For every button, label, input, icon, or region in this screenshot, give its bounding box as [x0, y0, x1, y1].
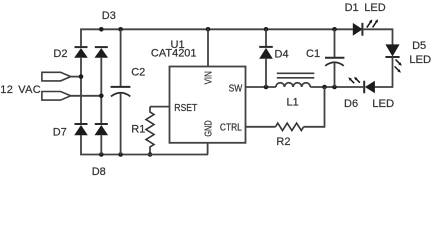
svg-text:SW: SW: [229, 84, 243, 95]
wire SW pin to L1: [246, 86, 276, 88]
svg-text:LED: LED: [372, 98, 394, 110]
svg-text:LED: LED: [409, 54, 431, 66]
diode D4: [259, 29, 273, 87]
svg-text:C1: C1: [306, 48, 320, 60]
svg-text:CAT4201: CAT4201: [151, 48, 197, 60]
svg-text:D6: D6: [344, 98, 358, 110]
svg-text:C2: C2: [131, 66, 145, 78]
capacitor C2: [111, 29, 131, 154]
svg-text:D2: D2: [53, 48, 67, 60]
node R1/bottom-rail junction: [148, 152, 153, 157]
node C1/node-line junction: [332, 85, 337, 90]
capacitor C1: [325, 29, 344, 87]
pin VIN wire: [207, 29, 209, 66]
wire SW node line (L1 right end to D6 cathode): [310, 86, 364, 88]
IC U1 box: [170, 67, 246, 143]
terminal 2 (VAC bottom): [42, 92, 101, 101]
svg-text:LED: LED: [364, 2, 385, 14]
node D3/top-rail junction: [99, 27, 104, 32]
node D4/top-rail junction: [264, 27, 269, 32]
svg-text:D4: D4: [275, 49, 289, 61]
svg-text:CTRL: CTRL: [220, 122, 242, 133]
pin RSET wire: [150, 106, 170, 108]
svg-text:RSET: RSET: [174, 103, 197, 114]
svg-text:D3: D3: [102, 10, 116, 22]
svg-text:D7: D7: [53, 126, 67, 138]
node C2/top-rail junction: [118, 27, 123, 32]
svg-text:GND: GND: [203, 120, 214, 136]
wire D1 cathode to D5 anode: [362, 29, 392, 45]
node terminal2/D3-column junction: [99, 94, 104, 99]
resistor R2: [276, 123, 304, 130]
node VIN/top-rail junction: [206, 27, 211, 32]
diode D8: [95, 124, 109, 155]
diode D2: [74, 47, 88, 77]
node R2/node-line junction: [322, 85, 327, 90]
wire top rail: [81, 29, 353, 47]
wire D5 cathode down to D6 anode: [375, 57, 393, 87]
wire R2 to node line: [304, 87, 325, 127]
svg-text:VIN: VIN: [203, 71, 214, 84]
node D4/SW junction: [264, 85, 269, 90]
node C2/bottom-rail junction: [118, 152, 123, 157]
diode D7: [74, 77, 88, 136]
svg-text:12 VAC: 12 VAC: [0, 84, 41, 96]
node terminal1/D2-column junction: [79, 74, 84, 79]
svg-text:D1: D1: [345, 2, 359, 14]
node D8/bottom-rail junction: [99, 152, 104, 157]
terminal 1 (VAC top): [42, 72, 81, 81]
LED D1: [353, 19, 378, 36]
node C1/top-rail junction: [332, 27, 337, 32]
svg-text:R2: R2: [276, 136, 290, 148]
LED D5: [385, 44, 401, 72]
inductor L1: [276, 73, 314, 87]
svg-text:D8: D8: [92, 166, 106, 177]
wire bottom rail: [81, 135, 208, 155]
wire CTRL pin to R2: [246, 126, 276, 128]
diode D3: [95, 47, 109, 124]
LED D6: [348, 77, 375, 94]
svg-text:D5: D5: [412, 40, 426, 52]
pin GND wire: [207, 143, 209, 155]
resistor R1: [146, 107, 154, 155]
svg-text:R1: R1: [131, 123, 145, 135]
svg-text:L1: L1: [287, 97, 299, 109]
